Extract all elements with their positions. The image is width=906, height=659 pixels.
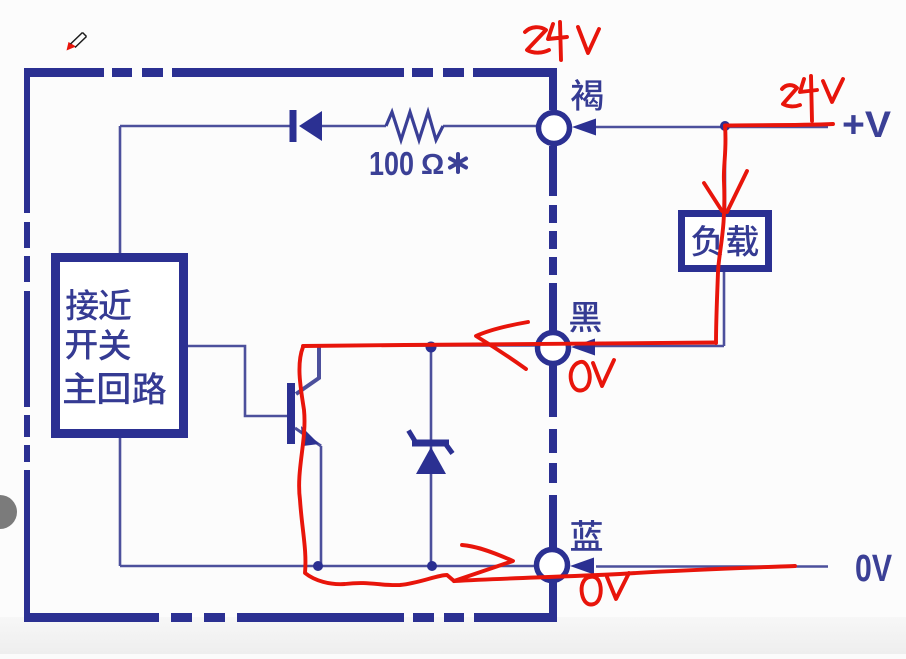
annotation: red trace along 0V wire to right [454, 566, 795, 581]
wire: 0V rail from blue terminal to right edge [596, 565, 828, 568]
wire: left vertical from top branch into main circuit box [119, 126, 122, 253]
diode D1 (reverse-polarity protection) [290, 110, 323, 142]
arrow into black terminal [571, 339, 595, 356]
svg-text:+V: +V [842, 104, 891, 145]
junction node: emitter / 0V rail [313, 561, 323, 571]
annotation: red trace down into load with arrowhead [716, 126, 726, 343]
asterisk mark after ohm value [450, 154, 466, 172]
junction node: collector / zener top [426, 342, 437, 353]
annotation: red trace along +V wire [725, 124, 833, 126]
proximity sensor enclosure dashed border (bottom) [24, 613, 557, 622]
label: lan (blue) [571, 520, 602, 551]
wire: brown terminal to diode/resistor branch [120, 125, 537, 128]
wire: zener branch vertical [430, 347, 433, 566]
player scrub handle (gray half disc at left edge) [0, 495, 17, 529]
label: zhuhuilu (main circuit) line 3 [64, 372, 166, 404]
annotation: handwritten 24V near +V [782, 85, 800, 106]
annotation: handwritten 0V at blue terminal [582, 577, 601, 605]
svg-text:0V: 0V [855, 548, 893, 590]
junction node: zener bottom / 0V rail [427, 561, 437, 571]
arrow into brown terminal [572, 119, 596, 136]
svg-text:Ω: Ω [421, 149, 444, 181]
label: fuzai (load) [692, 225, 758, 257]
annotation: red loop around output stage (left side) [299, 347, 454, 585]
annotation: handwritten 0V at black terminal [571, 362, 590, 391]
terminal circle: blue lead [537, 550, 568, 581]
enclosure dashed border (right column through terminals) [549, 68, 557, 622]
terminal circle: brown lead [539, 113, 570, 144]
load box [682, 214, 769, 269]
label: kaiguan (switch) line 2 [66, 329, 131, 360]
annotation: scribbled arrow at blue terminal [454, 545, 513, 581]
annotation pencil cursor icon [67, 33, 87, 51]
main circuit box (proximity switch main circuit) [56, 258, 184, 434]
annotation: red trace along black wire [303, 343, 716, 347]
arrow into blue terminal [570, 558, 594, 575]
proximity sensor enclosure dashed border (top) [24, 68, 557, 77]
annotation: big arrow toward black terminal [476, 322, 528, 369]
wire: collector vertical [296, 346, 319, 394]
proximity sensor enclosure dashed border (left) [24, 68, 30, 622]
transistor Q1 emitter arrow [295, 426, 321, 446]
junction node: +V / load branch [720, 121, 730, 131]
transistor Q1 NPN output: base bar [287, 383, 295, 444]
wire: base drive from main circuit box [188, 346, 287, 416]
wire: +V supply line into brown terminal [596, 126, 828, 129]
terminal circle: black lead [538, 333, 569, 364]
wire: emitter vertical down to 0V rail [320, 446, 323, 566]
wire: load branch vertical (from +V junction to load, load to black wire) [595, 128, 725, 346]
resistor 100 ohm zigzag [386, 112, 443, 140]
annotation: handwritten 24V above brown terminal [525, 27, 549, 52]
svg-text:100: 100 [369, 145, 414, 182]
zener diode ZD1 (surge absorber) [409, 431, 453, 475]
label: jiejin (proximity) line 1 [66, 289, 131, 321]
label: hei (black) [570, 302, 601, 332]
label: he (brown) [571, 79, 602, 111]
wire: black terminal to transistor collector net [318, 344, 536, 347]
wire: 0V bottom rail (inside enclosure) [120, 438, 535, 566]
